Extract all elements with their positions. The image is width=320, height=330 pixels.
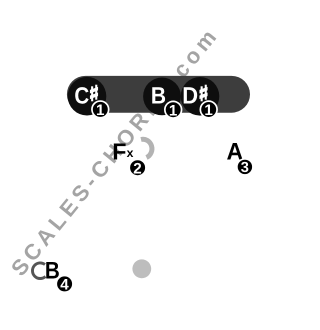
svg-text:3: 3 — [241, 160, 249, 176]
svg-text:2: 2 — [133, 160, 141, 177]
badge 4 — [55, 275, 73, 294]
badge 1 under D# — [200, 100, 218, 119]
watermark O fragment right of badge 2 — [141, 139, 152, 157]
svg-text:B: B — [151, 84, 166, 110]
svg-text:x: x — [127, 146, 134, 160]
gray circle — [132, 259, 151, 278]
black keys bar — [67, 76, 250, 113]
badge 1 under B — [164, 101, 182, 120]
svg-text:1: 1 — [169, 102, 178, 119]
badge 1 under C# — [91, 100, 109, 119]
svg-text:4: 4 — [60, 277, 69, 294]
watermark dark C fragment — [32, 263, 45, 279]
badge 3 — [236, 158, 254, 176]
svg-text:1: 1 — [204, 102, 213, 119]
disc B — [143, 78, 181, 116]
svg-text:1: 1 — [96, 102, 105, 119]
disc D# — [181, 77, 220, 116]
badge 2 — [128, 159, 146, 178]
svg-text:D: D — [182, 84, 198, 110]
disc C# — [68, 77, 107, 116]
svg-text:C: C — [74, 83, 89, 109]
svg-text:F: F — [112, 138, 126, 164]
